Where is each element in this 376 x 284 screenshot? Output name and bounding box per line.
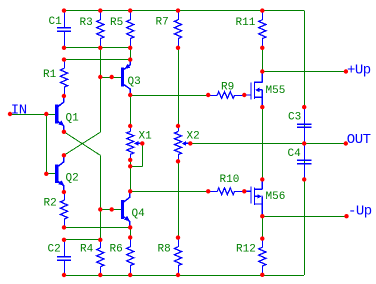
wire X1 bottom to Q4 collector node [130,160,132,191]
junction Q3 base pin [110,75,114,79]
transistor Q4 [121,192,130,228]
resistor R6 [127,237,134,275]
svg-text:IN: IN [11,103,27,119]
junction X2 top pin [176,124,180,128]
junction R5 top on rail [128,8,132,12]
wire M56 source down to R12 top [262,216,264,238]
junction C4 bottom pin [302,177,306,181]
trimmer X1 [127,126,143,160]
wire IN to Q1 base [10,114,55,116]
node +Up terminal dot [344,69,348,73]
junction Q4 emitter pin [128,225,132,229]
capacitor C3 [297,107,311,143]
node OUT terminal dot [344,141,348,145]
capacitor C4 [297,144,311,180]
junction R3 bottom [98,46,102,50]
resistor R5 [127,11,134,48]
transistor Q1 [55,96,64,132]
svg-text:R12: R12 [236,244,256,256]
junction R11 top on rail [260,8,264,12]
svg-text:X2: X2 [187,130,200,142]
wire R11 bottom to +Up node [262,48,264,72]
resistor R3 [97,11,104,48]
wire Q3 collector down to X1 top [130,95,132,126]
junction R7 top on rail [176,8,180,12]
resistor R2 [60,192,67,227]
wire X1 wiper loop bottom [130,166,142,168]
svg-text:Q3: Q3 [128,76,141,88]
svg-text:R1: R1 [43,69,57,81]
junction M55 drain / +Up node [260,69,264,73]
svg-text:Q1: Q1 [66,112,80,124]
svg-text:C2: C2 [48,244,61,256]
resistor R7 [174,11,181,48]
junction X1 loop node [128,164,132,168]
resistor R1 [60,60,67,96]
junction R1 bottom / Q1 collector [62,94,66,98]
svg-text:R4: R4 [80,244,94,256]
junction Q3 emitter pin [128,57,132,61]
junction R10 left pin [206,189,210,193]
wire Q4 emitter down to R6 top [130,227,132,237]
junction R4 bottom on rail [98,273,102,277]
wire +Up rail [262,71,346,73]
svg-text:R2: R2 [44,197,57,209]
resistor R9 [208,92,244,99]
junction Q2 collector pin [62,153,66,157]
junction X2 wiper pin [188,141,192,145]
capacitor C2 [57,240,71,275]
svg-text:R8: R8 [158,243,171,255]
wire R1 top / Q3 emitter row [64,59,130,61]
wire X1 wiper loop right side [142,143,144,166]
wire -Up rail [262,216,346,218]
svg-text:R7: R7 [156,16,169,28]
svg-text:+Up: +Up [347,62,371,78]
wire Q3 base stub [100,77,121,79]
junction R9 right / M55 gate pin [242,93,246,97]
svg-text:R11: R11 [236,17,256,29]
junction Q4 collector node [128,189,132,193]
svg-text:R10: R10 [220,174,240,186]
svg-text:Q2: Q2 [66,172,79,184]
junction C1 top on rail [62,8,66,12]
capacitor C1 [57,11,71,48]
junction R8 top [176,235,180,239]
svg-text:M55: M55 [266,85,286,97]
junction Q4 base pin [110,207,114,211]
junction R9 left pin [206,93,210,97]
junction Q3 base node [98,75,102,79]
mosfet M55 (N-channel) [244,72,262,108]
junction X1 bottom pin [128,158,132,162]
svg-text:Q4: Q4 [132,208,146,220]
junction Q1 base node [44,112,48,116]
junction C3 top pin [302,105,306,109]
junction Q2 emitter pin [62,190,66,194]
junction C1 bottom [62,46,66,50]
svg-text:-Up: -Up [348,204,372,220]
junction M55 source pin [260,105,264,109]
junction R12 top [260,236,264,240]
wire C1/R3/R5 bottom bus [64,47,130,49]
trimmer X2 [175,126,191,161]
resistor R12 [259,239,266,275]
wire M55 source to M56 drain [262,107,264,179]
wire cross-couple diagonal to Q2 collector [64,132,100,155]
resistor R4 [97,240,104,275]
junction OUT node [302,141,306,145]
resistor R11 [259,11,266,48]
junction X1 top pin [128,124,132,128]
svg-text:C1: C1 [49,16,63,28]
junction R11 bottom [260,46,264,50]
wire X2 bottom down to R8 top [178,161,180,237]
junction C2 bottom on rail [62,273,66,277]
wire Q3 collector to R9 [130,95,208,97]
transistor Q3 [121,60,130,95]
svg-text:OUT: OUT [347,132,371,148]
svg-text:R9: R9 [221,81,234,93]
wire Q2 base stub [46,173,55,175]
junction R6 top [128,235,132,239]
wire C2 top to R4 node [64,239,100,241]
wire R7 bottom down to X2 top [178,48,180,126]
junction R7 bottom [176,46,180,50]
svg-text:R5: R5 [110,17,123,29]
junction Q1 emitter pin [62,130,66,134]
junction R10 right / M56 gate pin [242,189,246,193]
resistor R10 [208,188,244,195]
junction M56 source pin [260,214,264,218]
svg-text:R6: R6 [110,243,123,255]
node -Up terminal dot [344,214,348,218]
resistor R8 [174,238,181,275]
junction R1 top [62,57,66,61]
svg-text:M56: M56 [266,191,286,203]
junction R2 bottom [62,225,66,229]
junction Q3 collector pin [128,93,132,97]
wire R2 bottom to Q4 emitter row [64,227,130,229]
mosfet M56 (P-channel) [244,179,262,216]
junction X1 wiper pin [140,141,144,145]
junction R6 bottom on rail [128,273,132,277]
wire bottom rail [64,275,304,277]
junction X2 bottom pin [176,159,180,163]
wire Q4 collector to R10 [130,191,208,193]
svg-text:C3: C3 [288,111,301,123]
wire top supply rail [64,10,304,12]
junction R5 bottom [128,46,132,50]
wire Q4 base stub [100,209,121,211]
wire Q1 base to Q2 base vertical [46,114,48,174]
wire Q1-emitter column down to R4 node [100,155,102,240]
wire cross-couple diagonal from Q1 emitter [64,132,100,156]
svg-text:R3: R3 [80,17,93,29]
svg-text:C4: C4 [288,148,302,160]
junction C2 top [62,238,66,242]
wire R3 bottom down to Q3 base column [100,48,102,132]
wire OUT row from X2 wiper [190,143,345,145]
transistor Q2 [55,156,64,192]
junction R12 bottom on rail [260,273,264,277]
junction M56 drain pin [260,177,264,181]
junction Q2 base pin [44,172,48,176]
wire R5 bottom to Q3 emitter node [130,48,132,60]
junction Q4 base node [98,207,102,211]
node IN terminal dot [8,112,12,116]
junction R8 bottom on rail [176,273,180,277]
wire right vertical bus [304,11,306,275]
junction R4 top node [98,238,102,242]
svg-text:X1: X1 [139,130,153,142]
junction R3 top on rail [98,8,102,12]
